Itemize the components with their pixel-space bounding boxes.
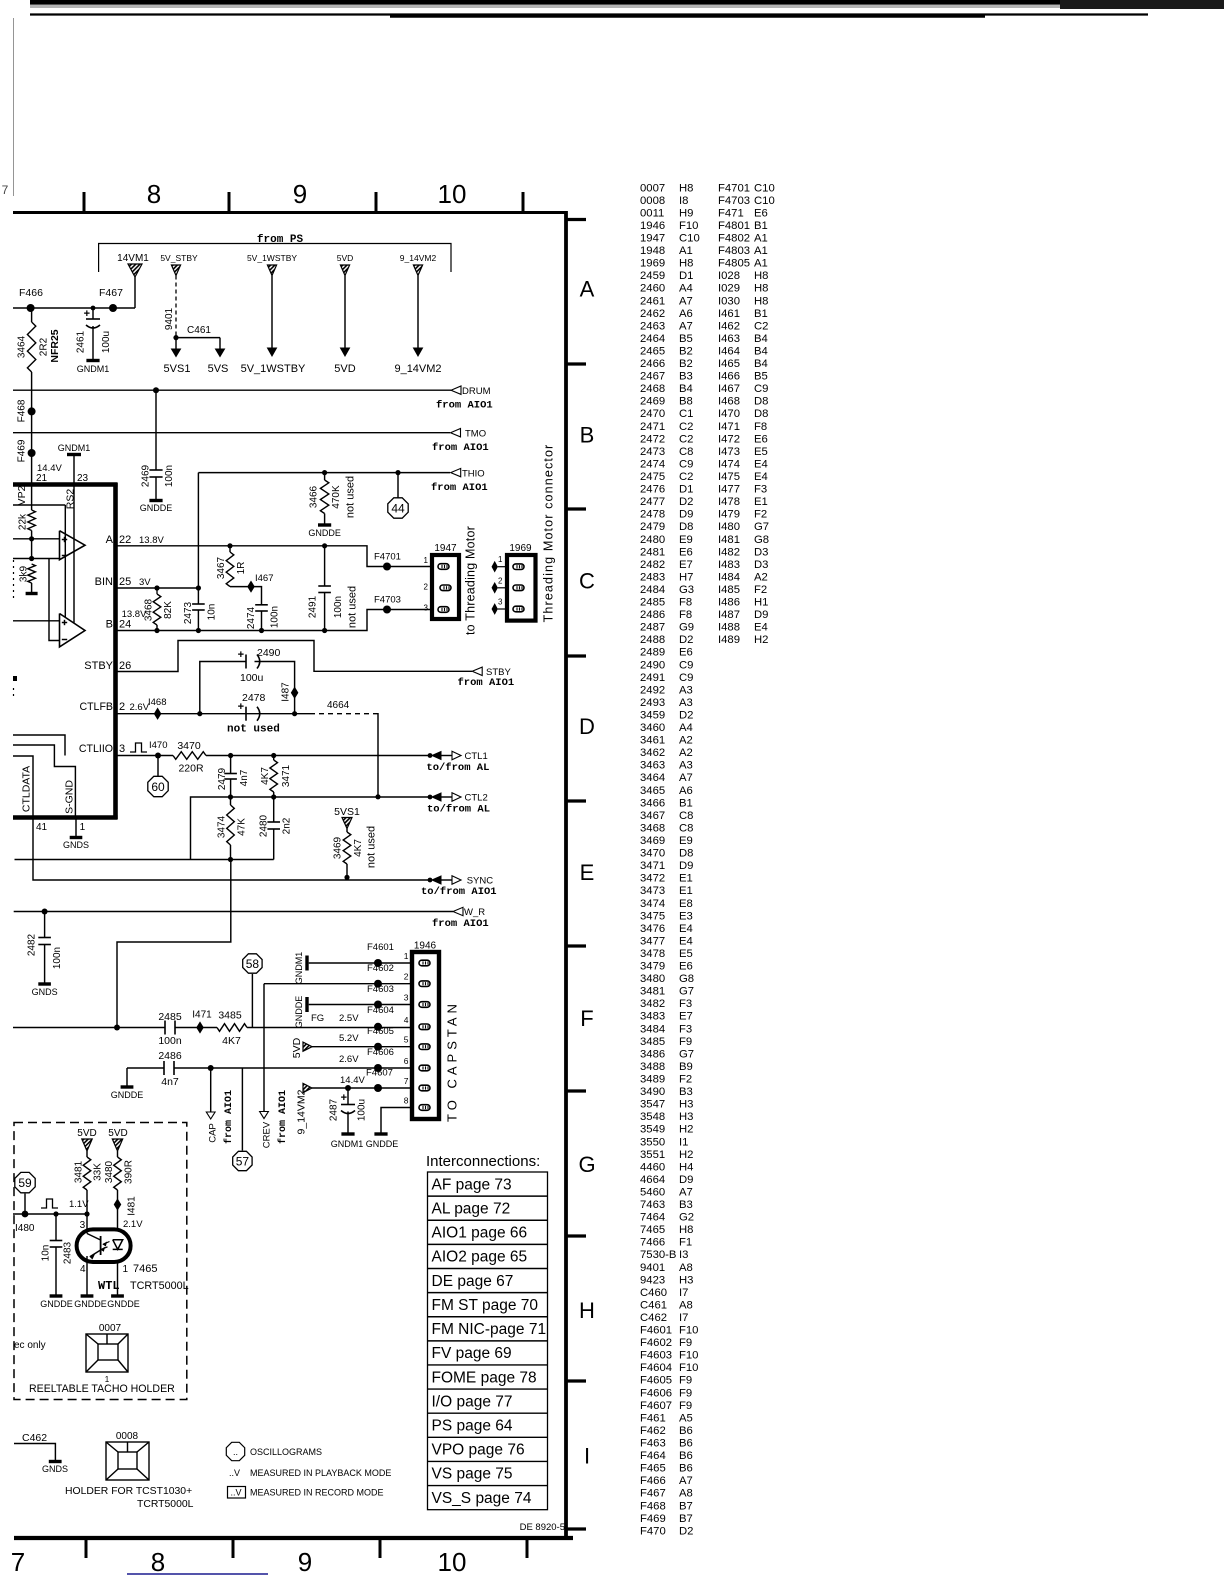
top ruler ticks bbox=[83, 192, 86, 211]
svg-text:GNDS: GNDS bbox=[63, 840, 89, 850]
svg-text:F4605: F4605 bbox=[367, 1026, 394, 1037]
svg-text:from AIO1: from AIO1 bbox=[223, 1090, 235, 1144]
svg-text:59: 59 bbox=[18, 1176, 32, 1190]
svg-text:GNDDE: GNDDE bbox=[294, 996, 304, 1029]
svg-text:from AIO1: from AIO1 bbox=[436, 400, 493, 412]
svg-text:2R2: 2R2 bbox=[39, 337, 50, 356]
svg-text:0007: 0007 bbox=[99, 1323, 122, 1334]
svg-text:MEASURED IN PLAYBACK MODE: MEASURED IN PLAYBACK MODE bbox=[250, 1468, 391, 1478]
svg-text:1: 1 bbox=[80, 822, 86, 833]
wire DRUM bbox=[13, 389, 451, 391]
svg-text:3V: 3V bbox=[139, 577, 151, 588]
svg-text:3550I1: 3550I1 bbox=[640, 1136, 688, 1148]
svg-text:W_R: W_R bbox=[464, 907, 485, 918]
svg-text:I467: I467 bbox=[255, 573, 274, 584]
svg-text:GNDDE: GNDDE bbox=[140, 503, 173, 513]
svg-text:C: C bbox=[579, 568, 595, 593]
svg-text:9: 9 bbox=[298, 1547, 312, 1577]
svg-text:F4703C10: F4703C10 bbox=[718, 195, 775, 207]
svg-text:8: 8 bbox=[147, 179, 161, 209]
svg-text:GNDDE: GNDDE bbox=[74, 1299, 107, 1309]
svg-text:TCRT5000L: TCRT5000L bbox=[130, 1280, 189, 1292]
wire B24 to F4703 bbox=[116, 610, 433, 631]
svg-text:2479: 2479 bbox=[217, 767, 228, 790]
svg-text:from AIO1: from AIO1 bbox=[458, 677, 515, 689]
svg-text:2482: 2482 bbox=[27, 933, 38, 956]
svg-text:14.4V: 14.4V bbox=[340, 1075, 365, 1086]
svg-text:3: 3 bbox=[119, 743, 125, 755]
pin6 wire 2486 F4606 bbox=[126, 1068, 128, 1087]
svg-text:OSCILLOGRAMS: OSCILLOGRAMS bbox=[250, 1447, 322, 1457]
oscillogram 44 bbox=[397, 473, 399, 498]
svg-text:F4703: F4703 bbox=[374, 595, 401, 606]
svg-text:HOLDER FOR TCST1030+: HOLDER FOR TCST1030+ bbox=[65, 1486, 192, 1497]
svg-text:TMO: TMO bbox=[465, 429, 486, 440]
svg-text:GNDDE: GNDDE bbox=[366, 1139, 399, 1149]
opamp B bbox=[60, 614, 86, 647]
node F467 bbox=[109, 304, 117, 312]
svg-text:1R: 1R bbox=[236, 562, 247, 575]
svg-text:F469: F469 bbox=[17, 439, 28, 462]
svg-text:S-GND: S-GND bbox=[63, 780, 75, 814]
svg-text:C461: C461 bbox=[187, 325, 211, 336]
capacitor 2491 100n not used bbox=[324, 546, 326, 586]
svg-text:2.1V: 2.1V bbox=[123, 1219, 143, 1230]
svg-text:NFR25: NFR25 bbox=[49, 329, 61, 362]
resistor 3474 47K bbox=[230, 797, 232, 805]
svg-text:VS_S page 74: VS_S page 74 bbox=[432, 1490, 532, 1507]
svg-text:9_14VM2: 9_14VM2 bbox=[400, 253, 437, 263]
wire THIO vertical bbox=[197, 473, 199, 588]
svg-text:5VD: 5VD bbox=[337, 253, 354, 263]
pin8 wire GNDDE bbox=[381, 1108, 412, 1134]
capacitor 2469 bbox=[155, 390, 157, 470]
right border row ticks bbox=[567, 218, 586, 221]
oscillogram 57 bbox=[241, 1068, 243, 1151]
svg-text:2: 2 bbox=[498, 576, 503, 585]
svg-text:GNDDE: GNDDE bbox=[107, 1299, 140, 1309]
node F468 bbox=[28, 407, 36, 415]
svg-text:ec only: ec only bbox=[14, 1340, 46, 1351]
svg-text:100u: 100u bbox=[357, 1099, 368, 1121]
svg-text:2490: 2490 bbox=[257, 647, 281, 659]
svg-text:4n7: 4n7 bbox=[239, 769, 250, 786]
capacitor 2490 100u bbox=[200, 662, 246, 714]
svg-text:CTL2: CTL2 bbox=[465, 793, 488, 804]
svg-text:GNDM1: GNDM1 bbox=[331, 1139, 364, 1149]
svg-text:5VS1: 5VS1 bbox=[164, 363, 191, 375]
svg-text:H: H bbox=[579, 1298, 595, 1323]
svg-text:8: 8 bbox=[151, 1547, 165, 1577]
svg-text:2473: 2473 bbox=[183, 601, 194, 624]
svg-text:F4606F9: F4606F9 bbox=[640, 1387, 692, 1399]
svg-text:I: I bbox=[584, 1444, 590, 1469]
svg-text:A: A bbox=[580, 277, 595, 302]
svg-text:3469: 3469 bbox=[333, 836, 344, 859]
svg-text:3464: 3464 bbox=[17, 335, 28, 358]
svg-text:F4603F10: F4603F10 bbox=[640, 1350, 698, 1362]
svg-text:MEASURED IN RECORD MODE: MEASURED IN RECORD MODE bbox=[250, 1488, 384, 1498]
IC 7463 servo block outline bbox=[13, 482, 118, 487]
CTL2 port bbox=[428, 795, 433, 800]
svg-text:3: 3 bbox=[498, 598, 503, 607]
svg-text:GNDDE: GNDDE bbox=[308, 528, 341, 538]
svg-text:10: 10 bbox=[438, 1547, 467, 1577]
svg-text:3466: 3466 bbox=[309, 485, 320, 508]
capacitor 2487 100u bbox=[347, 1088, 349, 1105]
svg-text:2474: 2474 bbox=[246, 606, 257, 629]
svg-text:F466: F466 bbox=[19, 287, 43, 299]
resistor 3481 33K bbox=[83, 1157, 91, 1190]
svg-text:390R: 390R bbox=[124, 1160, 135, 1184]
from PS bus bracket bbox=[99, 244, 451, 273]
svg-text:6: 6 bbox=[404, 1056, 409, 1066]
svg-text:to/from AL: to/from AL bbox=[427, 804, 490, 816]
svg-text:F4701C10: F4701C10 bbox=[718, 182, 775, 194]
capacitor 2482 100n bbox=[44, 912, 46, 938]
svg-text:5VD: 5VD bbox=[291, 1037, 303, 1058]
connector 1947 bbox=[432, 555, 459, 619]
svg-text:FOME page 78: FOME page 78 bbox=[432, 1369, 537, 1386]
svg-text:2: 2 bbox=[404, 972, 409, 982]
svg-text:CTLDATA: CTLDATA bbox=[21, 766, 33, 812]
svg-text:F4603: F4603 bbox=[367, 984, 394, 995]
svg-text:CREV: CREV bbox=[261, 1121, 272, 1148]
svg-text:44: 44 bbox=[391, 502, 405, 516]
wire 14VM1 rail bbox=[13, 307, 135, 309]
connector 1969 bbox=[507, 555, 536, 621]
svg-text:1946: 1946 bbox=[414, 941, 437, 952]
svg-text:2487: 2487 bbox=[329, 1098, 340, 1121]
resistor 3468 82K bbox=[153, 594, 161, 625]
internal wire S-GND bbox=[13, 745, 75, 816]
svg-text:100n: 100n bbox=[270, 606, 281, 628]
svg-text:14VM1: 14VM1 bbox=[117, 253, 149, 264]
svg-text:AIO1 page 66: AIO1 page 66 bbox=[432, 1225, 528, 1242]
svg-text:1947: 1947 bbox=[434, 543, 457, 554]
CTL1 port bbox=[428, 753, 433, 758]
svg-text:0008I8: 0008I8 bbox=[640, 195, 688, 207]
svg-text:1: 1 bbox=[498, 555, 503, 564]
blue pen underline bbox=[127, 1573, 268, 1575]
internal rail pin23 bbox=[73, 484, 75, 623]
svg-text:5V_STBY: 5V_STBY bbox=[160, 253, 198, 263]
svg-text:F4602F9: F4602F9 bbox=[640, 1337, 692, 1349]
svg-text:REELTABLE TACHO HOLDER: REELTABLE TACHO HOLDER bbox=[29, 1383, 175, 1395]
svg-text:3481: 3481 bbox=[74, 1160, 85, 1183]
svg-text:220R: 220R bbox=[178, 763, 204, 775]
svg-text:3: 3 bbox=[424, 604, 429, 613]
svg-text:26: 26 bbox=[119, 660, 131, 672]
svg-text:SYNC: SYNC bbox=[467, 876, 494, 887]
pin 41 wire to SYNC bbox=[33, 819, 430, 880]
svg-text:1: 1 bbox=[404, 951, 409, 961]
svg-text:F471E6: F471E6 bbox=[718, 207, 768, 219]
capacitor 2478 not used bbox=[245, 707, 247, 721]
svg-text:5VS: 5VS bbox=[208, 363, 229, 375]
node F466 bbox=[27, 304, 35, 312]
wire 3474-node jog to 2485 bbox=[117, 860, 231, 1028]
capacitor 2461 bbox=[91, 306, 96, 311]
test point I487 bbox=[291, 688, 297, 698]
svg-text:470K: 470K bbox=[331, 485, 342, 509]
wire base node bbox=[13, 1213, 87, 1215]
capacitor 2474 100n bbox=[251, 587, 262, 605]
svg-text:100n: 100n bbox=[52, 947, 63, 969]
page left edge artifact bbox=[13, 18, 15, 196]
svg-text:GNDS: GNDS bbox=[32, 987, 58, 997]
svg-text:DRUM: DRUM bbox=[462, 386, 491, 397]
light arrows bbox=[103, 1242, 110, 1245]
svg-text:I/O page 77: I/O page 77 bbox=[432, 1393, 513, 1410]
resistor 3471 4K7 bbox=[273, 756, 275, 761]
svg-text:F468: F468 bbox=[17, 399, 28, 422]
svg-text:4664: 4664 bbox=[327, 700, 350, 711]
scan artifact top bar bbox=[30, 0, 1224, 5]
svg-text:from AIO1: from AIO1 bbox=[432, 442, 489, 454]
capacitor 2479 4n7 bbox=[230, 756, 232, 774]
svg-text:3485: 3485 bbox=[218, 1010, 242, 1022]
svg-text:RS2: RS2 bbox=[65, 489, 77, 510]
svg-text:3468: 3468 bbox=[144, 598, 155, 621]
svg-text:..V: ..V bbox=[229, 1468, 240, 1478]
svg-text:2461: 2461 bbox=[76, 330, 87, 353]
svg-text:33K: 33K bbox=[93, 1163, 104, 1181]
svg-text:3470: 3470 bbox=[177, 740, 201, 752]
svg-text:to Threading Motor: to Threading Motor bbox=[463, 526, 477, 635]
svg-text:0008: 0008 bbox=[116, 1431, 139, 1442]
svg-text:2483: 2483 bbox=[63, 1241, 74, 1264]
svg-text:5V_1WSTBY: 5V_1WSTBY bbox=[247, 253, 297, 263]
svg-text:not used: not used bbox=[346, 586, 358, 628]
svg-text:F4805A1: F4805A1 bbox=[718, 258, 768, 270]
svg-text:5: 5 bbox=[404, 1035, 409, 1045]
svg-text:from AIO1: from AIO1 bbox=[431, 482, 488, 494]
svg-text:100u: 100u bbox=[240, 672, 264, 684]
svg-text:from AIO1: from AIO1 bbox=[277, 1090, 289, 1144]
grounds GNDDE x3 bbox=[81, 1294, 94, 1297]
svg-text:G: G bbox=[578, 1152, 595, 1177]
svg-text:CTLFB: CTLFB bbox=[79, 701, 113, 713]
svg-text:GNDM1: GNDM1 bbox=[294, 952, 304, 985]
svg-text:to/from AL: to/from AL bbox=[426, 762, 489, 774]
svg-text:VP2: VP2 bbox=[16, 485, 28, 505]
svg-text:3474: 3474 bbox=[217, 815, 228, 838]
CAP branch from AIO1 bbox=[210, 1068, 212, 1112]
svg-text:5.2V: 5.2V bbox=[339, 1033, 359, 1044]
svg-text:F4604F10: F4604F10 bbox=[640, 1362, 698, 1374]
svg-text:I480: I480 bbox=[15, 1223, 35, 1234]
svg-text:CAP: CAP bbox=[207, 1123, 218, 1143]
svg-text:F: F bbox=[580, 1006, 593, 1031]
resistor 3466 470K not used bbox=[324, 473, 326, 480]
svg-text:AL page 72: AL page 72 bbox=[432, 1200, 511, 1217]
svg-text:4n7: 4n7 bbox=[161, 1076, 179, 1088]
svg-text:Threading Motor connector: Threading Motor connector bbox=[541, 444, 555, 623]
pin2 wire F4602 from CREV bbox=[264, 983, 412, 985]
svg-text:F4801B1: F4801B1 bbox=[718, 220, 768, 232]
svg-text:not used: not used bbox=[365, 826, 377, 868]
schematic frame bottom border bbox=[14, 1536, 573, 1540]
svg-text:F4802A1: F4802A1 bbox=[718, 233, 768, 245]
svg-text:10n: 10n bbox=[41, 1245, 52, 1262]
svg-text:..: .. bbox=[233, 1447, 238, 1457]
svg-text:C462: C462 bbox=[22, 1432, 47, 1444]
svg-text:TO CAPSTAN: TO CAPSTAN bbox=[445, 1000, 460, 1122]
wire A22 to F4701 bbox=[116, 546, 433, 567]
internal wire CTLDATA pin 41 bbox=[13, 756, 33, 816]
svg-text:1: 1 bbox=[123, 1264, 129, 1275]
svg-text:2.5V: 2.5V bbox=[339, 1013, 359, 1024]
svg-text:9401: 9401 bbox=[164, 307, 175, 330]
svg-text:F4601F10: F4601F10 bbox=[640, 1325, 698, 1337]
svg-text:2491: 2491 bbox=[308, 595, 319, 618]
svg-text:Interconnections:: Interconnections: bbox=[426, 1153, 540, 1170]
svg-text:7465: 7465 bbox=[133, 1263, 157, 1275]
svg-text:4: 4 bbox=[80, 1264, 86, 1275]
svg-text:FG: FG bbox=[311, 1013, 324, 1024]
svg-text:3467: 3467 bbox=[216, 556, 227, 579]
svg-text:FM ST page 70: FM ST page 70 bbox=[432, 1297, 539, 1314]
svg-text:WTL: WTL bbox=[98, 1279, 120, 1293]
svg-text:not used: not used bbox=[227, 724, 280, 736]
svg-text:F4607F9: F4607F9 bbox=[640, 1400, 692, 1412]
svg-text:FM NIC-page 71: FM NIC-page 71 bbox=[432, 1321, 547, 1338]
pin1 GNDM1 wire F4601 bbox=[305, 956, 308, 971]
svg-text:F4803A1: F4803A1 bbox=[718, 245, 768, 257]
svg-text:9_14VM2: 9_14VM2 bbox=[394, 363, 441, 375]
svg-text:82K: 82K bbox=[163, 601, 174, 619]
svg-text:2.6V: 2.6V bbox=[339, 1054, 359, 1065]
svg-text:THIO: THIO bbox=[462, 469, 485, 480]
svg-text:1: 1 bbox=[424, 556, 429, 565]
wire capstan pin4 rail bbox=[13, 1027, 165, 1029]
svg-text:E: E bbox=[580, 860, 595, 885]
svg-text:2486: 2486 bbox=[158, 1050, 182, 1062]
svg-text:10n: 10n bbox=[207, 604, 218, 621]
svg-text:58: 58 bbox=[246, 957, 260, 971]
svg-text:4: 4 bbox=[404, 1015, 409, 1025]
svg-text:DE page 67: DE page 67 bbox=[432, 1273, 514, 1290]
node F469 bbox=[28, 449, 36, 457]
svg-text:5VD: 5VD bbox=[334, 363, 355, 375]
LED in opto bbox=[113, 1240, 123, 1250]
svg-text:C462I7: C462I7 bbox=[640, 1312, 688, 1324]
resistor 3470 220R bbox=[173, 752, 206, 760]
svg-text:5V_1WSTBY: 5V_1WSTBY bbox=[241, 363, 306, 375]
svg-text:2.6V: 2.6V bbox=[130, 702, 150, 713]
schematic frame top border bbox=[13, 211, 568, 214]
wire THIO bbox=[198, 472, 450, 474]
svg-text:FV page 69: FV page 69 bbox=[432, 1345, 512, 1362]
wire SYNC port bbox=[428, 878, 433, 883]
svg-text:STBY: STBY bbox=[84, 660, 113, 672]
bottom ruler ticks bbox=[85, 1540, 88, 1558]
capacitor 2483 10n bbox=[55, 1214, 57, 1241]
svg-text:GNDDE: GNDDE bbox=[40, 1299, 73, 1309]
test point I467 bbox=[248, 581, 254, 591]
svg-text:VPO page 76: VPO page 76 bbox=[432, 1442, 525, 1459]
node F4703 bbox=[383, 606, 391, 614]
resistor 3464 2R2 NFR25 bbox=[31, 308, 33, 322]
svg-text:9: 9 bbox=[293, 179, 307, 209]
connector 1946 TO CAPSTAN bbox=[412, 952, 439, 1119]
svg-text:4K7: 4K7 bbox=[353, 839, 364, 857]
svg-text:F4607: F4607 bbox=[366, 1068, 393, 1079]
svg-text:D: D bbox=[579, 714, 595, 739]
resistor 3k9 bbox=[28, 564, 36, 583]
test point I481 bbox=[114, 1199, 120, 1209]
svg-text:DE 8920-5: DE 8920-5 bbox=[520, 1522, 565, 1533]
svg-text:3: 3 bbox=[404, 993, 409, 1003]
svg-text:7: 7 bbox=[404, 1076, 409, 1086]
dashed box reeltable tacho bbox=[14, 1123, 187, 1400]
svg-text:8: 8 bbox=[404, 1096, 409, 1106]
svg-text:AIO2 page 65: AIO2 page 65 bbox=[432, 1249, 528, 1266]
svg-text:47K: 47K bbox=[237, 818, 248, 836]
svg-text:VS page 75: VS page 75 bbox=[432, 1466, 513, 1483]
svg-text:F4604: F4604 bbox=[367, 1005, 394, 1016]
svg-text:7: 7 bbox=[11, 1547, 25, 1577]
svg-text:F4605F9: F4605F9 bbox=[640, 1375, 692, 1387]
svg-text:GNDM1: GNDM1 bbox=[77, 364, 110, 374]
wire CTLIIO / CTL1 bbox=[130, 743, 147, 752]
wire STBY bbox=[116, 641, 473, 672]
svg-text:2478: 2478 bbox=[242, 692, 266, 704]
svg-text:25: 25 bbox=[119, 576, 131, 588]
opamp A bbox=[60, 531, 86, 560]
svg-text:CTLIIO: CTLIIO bbox=[79, 743, 113, 755]
svg-text:21: 21 bbox=[36, 473, 48, 484]
svg-text:10: 10 bbox=[438, 179, 467, 209]
wire opamp B inverting bbox=[49, 559, 60, 641]
svg-text:C460I7: C460I7 bbox=[640, 1287, 688, 1299]
schematic frame right border bbox=[564, 211, 568, 1540]
svg-text:100n: 100n bbox=[158, 1035, 182, 1047]
wire CTL2 bbox=[191, 797, 431, 860]
svg-text:A: A bbox=[106, 534, 114, 546]
svg-text:PS page 64: PS page 64 bbox=[432, 1418, 513, 1435]
svg-text:+: + bbox=[341, 1092, 347, 1104]
svg-text:BIN: BIN bbox=[95, 576, 113, 588]
resistor 3485 4K7 bbox=[217, 1024, 247, 1032]
svg-text:2485: 2485 bbox=[158, 1011, 182, 1023]
svg-text:+: + bbox=[238, 649, 244, 661]
capacitor 2485 100n bbox=[164, 1021, 166, 1035]
svg-text:not used: not used bbox=[344, 476, 356, 518]
wire BIN bbox=[116, 587, 199, 589]
internal wire CTLIIO bbox=[13, 735, 65, 756]
resistor 3480 390R bbox=[114, 1157, 122, 1190]
svg-text:F4601: F4601 bbox=[367, 942, 394, 953]
svg-text:5VS1: 5VS1 bbox=[334, 806, 360, 818]
svg-text:+: + bbox=[84, 308, 90, 320]
capacitor 2473 10n bbox=[197, 588, 199, 604]
svg-text:4K7: 4K7 bbox=[222, 1035, 241, 1047]
svg-text:GNDS: GNDS bbox=[42, 1464, 68, 1474]
svg-text:GNDM1: GNDM1 bbox=[58, 443, 91, 453]
svg-text:I470: I470 bbox=[149, 740, 168, 751]
svg-text:3k9: 3k9 bbox=[19, 566, 30, 583]
svg-text:C461A8: C461A8 bbox=[640, 1299, 693, 1311]
svg-text:I471: I471 bbox=[192, 1010, 212, 1021]
svg-text:F4602: F4602 bbox=[367, 963, 394, 974]
svg-text:3480: 3480 bbox=[104, 1160, 115, 1183]
test point I468 bbox=[154, 709, 160, 719]
svg-text:to/from AIO1: to/from AIO1 bbox=[421, 886, 497, 898]
svg-text:5VD: 5VD bbox=[108, 1128, 127, 1139]
resistor 22k bbox=[31, 484, 33, 510]
